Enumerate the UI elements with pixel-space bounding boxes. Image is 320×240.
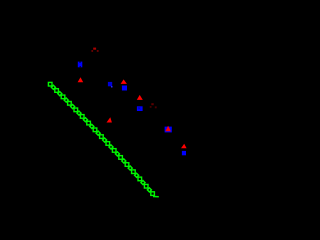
blue square M [182,151,186,155]
square B bottom notch [80,66,81,67]
dim red triangle I: left foot [150,106,152,108]
square B top notch [80,62,81,63]
blue square D [108,82,112,86]
blue dot D2 [111,86,113,88]
dark cross inside square H [138,107,141,109]
dim red triangle I: right foot [155,106,157,108]
red triangle G [137,95,143,100]
dim red triangle A: left foot [91,50,93,52]
chain tail dash [153,196,159,198]
blue square H [137,106,143,111]
red triangle L [181,144,187,149]
red triangle E [121,79,127,84]
dim red triangle I: apex blob [151,103,153,105]
red triangle J (lopsided) [107,117,112,122]
red triangle K2 on top [165,126,171,131]
dim red triangle A: right foot [97,50,99,52]
blue square K [165,127,172,133]
red triangle C [78,77,84,82]
dim red triangle A: apex blob [93,48,96,50]
blue square B [78,62,83,68]
green chain of alternating square and diamond links [48,82,154,195]
blue square F [122,86,127,91]
